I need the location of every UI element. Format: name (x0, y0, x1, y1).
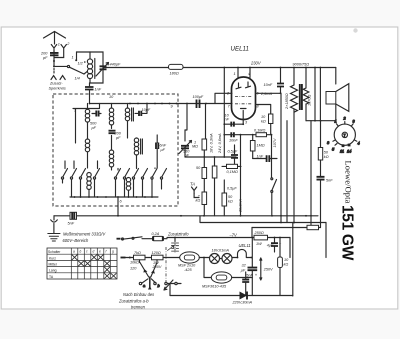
svg-text:0,1MΩ: 0,1MΩ (227, 170, 238, 174)
svg-text:Lang: Lang (49, 269, 57, 273)
ground (48, 216, 60, 241)
svg-text:4: 4 (358, 142, 360, 146)
junction dots contact bus (74, 196, 153, 198)
svg-text:10kΩ: 10kΩ (130, 261, 139, 265)
svg-text:440pF: 440pF (110, 63, 121, 67)
ground rail (54, 215, 318, 217)
wire branch from bus at 187 (185, 104, 187, 131)
resistor 50kΩ mid (196, 157, 207, 192)
band switch contacts row (61, 161, 166, 179)
coil L5 (85, 139, 89, 168)
rail B (200, 216, 326, 223)
svg-text:18V,01mA: 18V,01mA (212, 249, 230, 253)
svg-text:18V, 0,3mA: 18V, 0,3mA (210, 133, 214, 153)
capacitor 4µF (267, 237, 282, 252)
svg-text:Zusatztrafo: Zusatztrafo (167, 232, 189, 237)
svg-text:1: 1 (72, 56, 74, 60)
junction dots ground rail (117, 215, 312, 217)
svg-text:230V: 230V (250, 61, 262, 66)
svg-text:Mittel: Mittel (49, 263, 57, 267)
wire grid bus (90, 103, 233, 105)
svg-text:nF: nF (225, 118, 230, 122)
node junction below cap (53, 60, 55, 62)
wire cathode column (242, 111, 244, 125)
svg-text:a: a (73, 250, 75, 254)
svg-text:100μF: 100μF (193, 95, 204, 99)
switch volume (271, 178, 277, 216)
wire pin8 right to 10k (256, 105, 271, 115)
svg-text:Schalter: Schalter (48, 250, 61, 254)
svg-text:1nF: 1nF (95, 88, 102, 92)
voltage selector taps (168, 237, 179, 253)
svg-text:UEL11: UEL11 (239, 243, 251, 248)
capacitor 100µF (193, 95, 204, 108)
svg-text:-425: -425 (184, 268, 192, 272)
capacitor 200pF (40, 49, 59, 61)
switch 1/4 (54, 65, 84, 80)
svg-text:kΩ: kΩ (261, 120, 266, 124)
coil L8 lower (87, 173, 91, 198)
coil L3 (109, 104, 113, 129)
svg-text:–7V: –7V (229, 233, 239, 238)
junction Y zusatztrafo (140, 263, 157, 290)
scan smudge (353, 28, 357, 32)
svg-text:kΩ: kΩ (324, 155, 329, 159)
wire contact bus (70, 196, 158, 198)
capacitor 1nF right (253, 155, 277, 163)
rail C (252, 227, 321, 229)
wire main anode line 230V (103, 67, 336, 69)
svg-text:pF: pF (91, 126, 97, 130)
svg-text:600V–Bereich: 600V–Bereich (63, 238, 89, 243)
antenna (44, 32, 66, 45)
wire node 287 down (286, 121, 288, 223)
dial lamp 2 (220, 254, 233, 264)
tube MSF 2x10 (178, 252, 199, 272)
heater rail -7V (167, 237, 290, 239)
svg-text:6nF: 6nF (160, 144, 167, 148)
svg-text:1W: 1W (256, 242, 262, 246)
switch contact j (162, 169, 167, 177)
capacitor 10nF (cathode) (223, 122, 244, 127)
wire rail C left corner down (251, 228, 253, 238)
svg-text:1MΩ: 1MΩ (257, 144, 265, 148)
svg-text:TA: TA (190, 182, 195, 187)
switch contact i (153, 168, 158, 177)
measure 250V (260, 258, 273, 280)
svg-text:1: 1 (58, 43, 60, 47)
svg-text:180Ω: 180Ω (170, 72, 179, 76)
dashed link a-b (165, 247, 167, 282)
capacitor 6nF (156, 135, 167, 168)
switch contact g (134, 168, 139, 177)
svg-text:0,2A: 0,2A (152, 232, 160, 236)
svg-text:4μF: 4μF (267, 243, 274, 247)
svg-text:1: 1 (335, 120, 337, 124)
svg-text:120: 120 (130, 267, 137, 271)
output transformer secondary (303, 67, 309, 121)
junction dots on bus (89, 103, 207, 105)
resistor 0,1MΩ cathode horizontal (254, 129, 267, 137)
capacitor 5nF right (317, 177, 334, 228)
svg-text:Nach Einbau des: Nach Einbau des (123, 292, 154, 297)
Sperrkreis terminal b (60, 76, 65, 80)
wire left stub bus (73, 104, 100, 144)
svg-text:g: g (112, 250, 114, 254)
wire 240.5 column down (240, 135, 242, 216)
wire stubs contacts to bus (63, 179, 162, 197)
wire tube pin1 pin4 to anode line (238, 68, 250, 78)
svg-text:120Ω: 120Ω (152, 251, 161, 255)
X marks (72, 255, 117, 279)
tuner dashed enclosure (53, 94, 178, 206)
capacitor 200pF tuner (109, 131, 122, 140)
switch contact h (143, 169, 148, 177)
wire -7V right corner down (289, 238, 291, 258)
output transformer primary (291, 67, 298, 224)
svg-text:1/2: 1/2 (78, 62, 84, 66)
svg-text:kΩ: kΩ (228, 200, 233, 204)
wire 271.5 column + switch (271, 135, 273, 178)
resistor 180Ω (169, 64, 184, 75)
coil L4 with core (125, 104, 133, 139)
svg-text:Sperrkreis: Sperrkreis (49, 86, 66, 90)
resistor 50kΩ lower (222, 180, 233, 216)
svg-text:9000/75Ω: 9000/75Ω (293, 63, 310, 67)
svg-text:5nF: 5nF (326, 179, 333, 183)
switch contact b (72, 161, 77, 177)
wire cap to junctions (54, 49, 64, 67)
svg-text:pF: pF (115, 136, 121, 140)
resistor 7kΩ (130, 251, 145, 265)
wire diode line left corner (169, 284, 171, 296)
coil L6 (109, 136, 113, 171)
wire pin6 node down (280, 93, 282, 222)
resistor 2kΩ (196, 192, 207, 216)
switch contact a (63, 161, 68, 177)
svg-text:5nF: 5nF (246, 273, 253, 277)
terminal 1 coil (75, 59, 77, 61)
variable capacitor 560pF (179, 130, 192, 158)
wire rail B right corner down (325, 223, 327, 258)
svg-text:7: 7 (344, 133, 346, 137)
tube MSF3610 (202, 272, 232, 289)
resistor 120Ω heater (152, 251, 164, 269)
tube anode plates (236, 82, 251, 89)
terminal circles a b (139, 282, 181, 288)
svg-text:2×1850Ω: 2×1850Ω (285, 93, 289, 110)
svg-text:7kΩ: 7kΩ (134, 251, 141, 255)
resistor 10kΩ psu (278, 237, 290, 296)
wire row y135 (224, 134, 271, 136)
svg-text:MΩ: MΩ (192, 145, 198, 149)
resistor 1MΩ right (250, 135, 264, 159)
wire verticals to speaker row (315, 68, 321, 148)
svg-text:MSF3610-435: MSF3610-435 (202, 285, 227, 289)
capacitor 1nF (85, 83, 102, 104)
svg-text:Zusatz-: Zusatz- (49, 82, 63, 86)
svg-text:1: 1 (234, 72, 236, 76)
resistor mid column (212, 157, 217, 216)
variable capacitor 440pF (96, 63, 121, 77)
svg-text:μF: μF (160, 148, 166, 152)
diode (170, 292, 293, 305)
svg-text:b: b (80, 250, 82, 254)
wire psu vertical right (292, 223, 294, 297)
resistor on rail C (307, 225, 319, 229)
mains stub top (117, 238, 121, 240)
switch contact d (95, 161, 100, 177)
wire node row y157 (185, 156, 236, 158)
wire pin6 right (256, 92, 282, 94)
resistor 250Ω (254, 231, 268, 246)
Sperrkreis terminal a (51, 76, 56, 80)
svg-text:250V: 250V (263, 268, 273, 272)
svg-text:10pF: 10pF (142, 108, 151, 112)
resistor 1MΩ mid (192, 104, 207, 157)
svg-text:1nF: 1nF (257, 155, 264, 159)
switch contact e (116, 169, 121, 177)
tube UEL11 envelope (232, 77, 256, 120)
tube cathode (241, 108, 247, 110)
wire pin2 left (215, 93, 232, 103)
capacitor 10nF anode (264, 67, 285, 95)
mains stub bottom (121, 257, 126, 259)
coil L7 with core (134, 138, 142, 168)
antenna coil frame (77, 52, 104, 83)
svg-text:pF: pF (42, 56, 48, 60)
fuse 0,1A (152, 232, 168, 241)
wire TA to rail (194, 194, 199, 198)
svg-text:d: d (93, 250, 95, 254)
svg-text:2,6mA: 2,6mA (260, 92, 272, 96)
wire heater drop (204, 258, 212, 278)
svg-text:10nF: 10nF (229, 139, 238, 143)
wire lamps to UEL11 heater (232, 249, 251, 257)
tube socket (327, 117, 360, 154)
svg-text:UEL11: UEL11 (231, 46, 249, 53)
resistor 10kΩ pin8 (261, 114, 273, 135)
switch contact f (125, 169, 130, 177)
svg-text:10nF: 10nF (264, 83, 273, 87)
tube grid dashes (235, 96, 253, 98)
capacitor 5nF psu (242, 272, 253, 296)
svg-text:Zusatztrafos a-b: Zusatztrafos a-b (118, 299, 149, 304)
dial lamp 1 (210, 254, 220, 264)
svg-text:200: 200 (40, 52, 48, 56)
capacitor 0,5µF lower (227, 187, 237, 191)
svg-text:Meßinstrument 333Ω/V: Meßinstrument 333Ω/V (63, 232, 107, 237)
svg-text:e: e (99, 250, 101, 254)
svg-text:5nF: 5nF (68, 222, 75, 226)
wire 7k 120 drops (140, 260, 158, 263)
capacitor 32µF (240, 237, 258, 296)
svg-text:1070Ω: 1070Ω (308, 95, 312, 106)
antenna terminal 1 (51, 45, 56, 49)
wire MSF3610 right (232, 277, 253, 279)
svg-text:200V: 200V (152, 265, 162, 269)
speaker (326, 68, 349, 121)
coil L9 lower (126, 178, 130, 198)
coil L1 antenna (84, 52, 95, 83)
dashed stub to terminals (53, 69, 55, 75)
svg-text:b: b (158, 284, 160, 288)
svg-text:0,1MΩ: 0,1MΩ (254, 129, 265, 133)
svg-text:1/4: 1/4 (75, 77, 80, 81)
svg-text:14: 14 (347, 150, 351, 154)
label Nach Einbau (118, 280, 173, 310)
svg-text:151 GW: 151 GW (339, 205, 356, 261)
TA terminal (190, 182, 197, 194)
svg-text:220V,30mA: 220V,30mA (232, 301, 253, 305)
svg-text:0,5μF: 0,5μF (227, 187, 237, 191)
svg-text:kΩ: kΩ (196, 199, 201, 203)
wire to lamps (199, 257, 209, 259)
svg-text:Kurz: Kurz (49, 256, 56, 260)
wire node 311 down (310, 121, 312, 228)
resistor 0,1MΩ horizontal (222, 164, 241, 174)
capacitor 10pF (135, 104, 151, 117)
svg-text:11: 11 (340, 150, 344, 154)
svg-text:107V: 107V (273, 138, 277, 147)
svg-text:0,5μF: 0,5μF (228, 150, 238, 154)
capacitor 5nF chassis (68, 212, 77, 225)
wire feed to ground rail (117, 197, 119, 216)
resistor 50kΩ right (318, 148, 329, 177)
svg-text:trennen: trennen (131, 305, 146, 310)
capacitor 10nF lower (223, 132, 238, 142)
wire speaker bottom row (306, 120, 336, 122)
antenna terminal 2 (61, 45, 66, 49)
wire column 225.5 (223, 68, 225, 158)
svg-text:200: 200 (114, 132, 122, 136)
heater line bottom (126, 257, 181, 259)
svg-text:24V, 0,6mA: 24V, 0,6mA (218, 133, 222, 154)
trimmer cap L2 (92, 111, 101, 117)
mains switch (122, 237, 153, 240)
svg-text:kΩ: kΩ (284, 263, 289, 267)
switch table (47, 248, 117, 279)
coil L2 (85, 104, 89, 140)
svg-text:μF: μF (240, 268, 246, 272)
svg-text:500: 500 (90, 122, 97, 126)
svg-text:MSF 2x10: MSF 2x10 (178, 264, 196, 268)
svg-text:Loewe/Opta: Loewe/Opta (344, 160, 354, 203)
switch contact c (81, 169, 86, 177)
svg-text:250Ω: 250Ω (254, 231, 264, 235)
transformer core (300, 84, 302, 110)
svg-text:a: a (143, 284, 145, 288)
capacitor 0,5µF (228, 145, 239, 164)
